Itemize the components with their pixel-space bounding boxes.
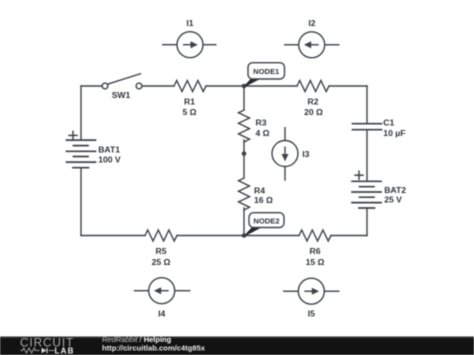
svg-text:25 Ω: 25 Ω bbox=[152, 257, 171, 267]
svg-text:http://circuitlab.com/c4tg85x: http://circuitlab.com/c4tg85x bbox=[102, 344, 206, 353]
svg-text:SW1: SW1 bbox=[112, 90, 131, 100]
svg-text:I3: I3 bbox=[302, 149, 309, 159]
svg-text:R4: R4 bbox=[254, 185, 265, 195]
svg-text:20 Ω: 20 Ω bbox=[304, 107, 323, 117]
svg-text:R3: R3 bbox=[256, 117, 267, 127]
svg-text:I4: I4 bbox=[158, 308, 165, 318]
svg-text:10 µF: 10 µF bbox=[383, 128, 405, 138]
svg-text:BAT1: BAT1 bbox=[98, 145, 120, 155]
svg-text:100 V: 100 V bbox=[98, 154, 121, 164]
svg-text:15 Ω: 15 Ω bbox=[306, 257, 325, 267]
svg-text:BAT2: BAT2 bbox=[384, 185, 406, 195]
svg-text:NODE1: NODE1 bbox=[253, 67, 280, 76]
svg-text:I5: I5 bbox=[308, 308, 315, 318]
svg-text:NODE2: NODE2 bbox=[253, 216, 279, 225]
svg-text:16 Ω: 16 Ω bbox=[254, 195, 273, 205]
svg-text:I2: I2 bbox=[308, 18, 315, 28]
svg-text:RedRabbit / Helping: RedRabbit / Helping bbox=[102, 335, 172, 344]
svg-text:R2: R2 bbox=[308, 97, 319, 107]
svg-text:R6: R6 bbox=[310, 246, 321, 256]
svg-text:R5: R5 bbox=[156, 246, 167, 256]
svg-text:R1: R1 bbox=[184, 97, 195, 107]
svg-text:C1: C1 bbox=[383, 118, 394, 128]
svg-text:5 Ω: 5 Ω bbox=[182, 107, 196, 117]
svg-text:25 V: 25 V bbox=[384, 195, 402, 205]
svg-text:LAB: LAB bbox=[55, 346, 75, 355]
svg-text:4 Ω: 4 Ω bbox=[256, 128, 270, 138]
svg-text:I1: I1 bbox=[186, 18, 193, 28]
